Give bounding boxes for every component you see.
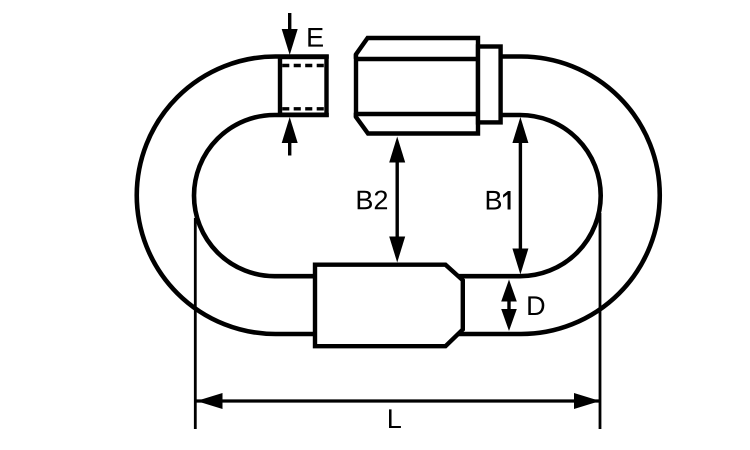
wire outer outline (oval ring) — [137, 57, 660, 335]
threaded stub end — [280, 57, 327, 115]
dimension B2 double arrow — [396, 159, 399, 240]
bottom sleeve — [315, 265, 463, 347]
dimension D double arrow — [507, 299, 510, 311]
thread hidden line bottom — [282, 107, 324, 110]
wire inner outline (oval ring) — [194, 115, 601, 276]
nut body — [356, 38, 478, 134]
label E — [308, 28, 323, 47]
nut collar — [478, 47, 501, 123]
dimension L arrow line — [197, 399, 601, 402]
nut hex flat line bottom — [356, 112, 478, 116]
dimension E bottom arrowhead — [282, 117, 298, 143]
dimension B1 double arrow — [519, 140, 522, 251]
thread hidden line top — [282, 64, 324, 67]
label B2 — [358, 190, 387, 209]
dimension L arrowhead right — [574, 393, 600, 409]
extension line left (L) — [194, 218, 197, 429]
gap eraser (opening between stub and nut) — [329, 45, 354, 125]
label D — [528, 296, 544, 315]
dimension L arrowhead left — [197, 393, 223, 409]
nut hex flat line top — [356, 57, 478, 61]
dimension E top arrow shaft — [288, 13, 291, 31]
extension line right (L) — [599, 213, 602, 429]
dimension E top arrowhead — [282, 29, 298, 55]
label B1 — [487, 191, 511, 210]
label L — [389, 409, 401, 428]
dimension E bottom arrow shaft — [288, 141, 291, 156]
